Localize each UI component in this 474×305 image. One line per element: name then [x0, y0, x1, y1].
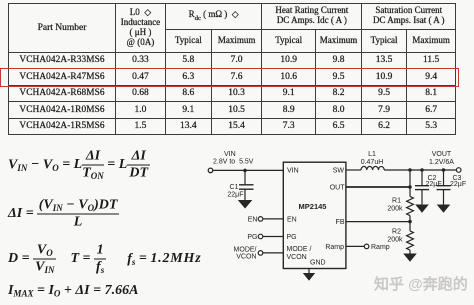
svg-text:22μF: 22μF [450, 181, 466, 188]
svg-text:VCON: VCON [287, 254, 307, 261]
svg-text:2.8V to 5.5V: 2.8V to 5.5V [213, 159, 254, 166]
svg-text:C1: C1 [230, 184, 239, 191]
svg-text:PG: PG [287, 234, 297, 241]
svg-text:VOUT: VOUT [432, 151, 452, 158]
svg-text:0.47uH: 0.47uH [361, 159, 384, 166]
svg-text:MODE/: MODE/ [234, 247, 257, 254]
svg-text:VIN: VIN [224, 151, 236, 158]
svg-text:Ramp: Ramp [371, 244, 390, 251]
svg-text:MODE /: MODE / [287, 246, 312, 253]
svg-text:PG: PG [247, 234, 257, 241]
svg-text:EN: EN [287, 217, 297, 224]
svg-text:22μF: 22μF [426, 181, 442, 188]
svg-text:VIN: VIN [287, 168, 299, 175]
svg-text:MP2145: MP2145 [299, 202, 327, 211]
svg-text:1.2V/6A: 1.2V/6A [429, 159, 454, 166]
svg-text:SW: SW [333, 167, 345, 174]
svg-text:R2: R2 [392, 229, 401, 236]
svg-text:200k: 200k [387, 206, 403, 213]
svg-text:L1: L1 [368, 151, 376, 158]
svg-text:Ramp: Ramp [325, 244, 344, 251]
svg-text:FB: FB [336, 219, 345, 226]
svg-text:R1: R1 [392, 198, 401, 205]
svg-text:EN: EN [248, 216, 258, 223]
svg-text:200k: 200k [387, 237, 403, 244]
svg-text:VCON: VCON [236, 254, 256, 261]
svg-text:GND: GND [310, 260, 326, 267]
svg-text:OUT: OUT [330, 185, 346, 192]
svg-text:22μF: 22μF [227, 192, 243, 199]
